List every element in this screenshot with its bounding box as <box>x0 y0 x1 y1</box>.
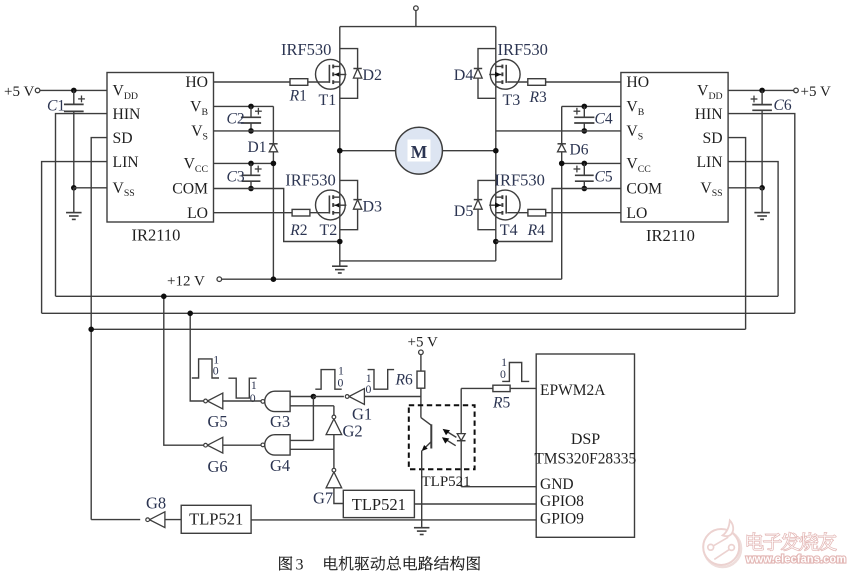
wire GPIO8 to TLP box <box>414 503 536 505</box>
wire G4 out to G6 in <box>223 444 261 446</box>
U2 right pin labels VDD HIN SD LIN VSS <box>695 83 723 200</box>
inverter G6 <box>204 437 228 476</box>
wire U2 LO <box>546 212 621 214</box>
svg-text:VDD: VDD <box>113 83 139 102</box>
diode D4 freewheel <box>474 49 496 99</box>
node T2 source <box>337 239 343 245</box>
node C4 top <box>582 104 588 110</box>
wire G6 out to bus A <box>164 296 204 445</box>
opto phototransistor <box>421 418 431 452</box>
wire LED cathode to GND pin <box>461 486 536 488</box>
nand G3 <box>261 391 290 431</box>
svg-text:G6: G6 <box>208 457 228 476</box>
diode D3 freewheel <box>340 180 362 229</box>
svg-text:VS: VS <box>191 123 208 142</box>
svg-text:+5 V: +5 V <box>801 84 831 100</box>
svg-text:0: 0 <box>500 367 506 381</box>
transistor T4 IRF530 <box>489 190 520 220</box>
svg-text:COM: COM <box>172 181 208 198</box>
right trunk <box>495 27 497 261</box>
supply terminal top <box>414 6 419 27</box>
wire U2 LIN to bus A <box>728 162 778 297</box>
node D6/VCC junction <box>559 161 565 167</box>
opto LED <box>457 388 466 486</box>
transistor T1 IRF530 <box>316 59 347 89</box>
svg-text:G8: G8 <box>146 494 166 513</box>
svg-text:HIN: HIN <box>113 106 141 123</box>
wire U1 SD down <box>91 138 107 520</box>
+5V logic terminal <box>408 335 438 355</box>
svg-text:C5: C5 <box>595 168 613 185</box>
svg-text:VDD: VDD <box>697 83 723 102</box>
wire G7 in from TLP box <box>334 488 343 504</box>
+5V left terminal <box>4 84 40 100</box>
caption 图3 电机驱动总电路结构图 <box>279 556 480 573</box>
svg-text:HO: HO <box>626 74 649 91</box>
U1 right pin labels HO VB VS VCC COM LO <box>172 74 208 222</box>
wire G3 in1 <box>290 396 313 398</box>
label TLP521 dashed <box>422 474 471 490</box>
waveform pulse W1 <box>192 353 219 378</box>
capacitor C3 <box>227 163 262 188</box>
svg-text:LO: LO <box>187 205 208 222</box>
U1 left pin labels VDD HIN SD LIN VSS <box>113 83 141 200</box>
node VSS/C6 junction <box>759 185 765 191</box>
bus C (SD-left / SD-right) <box>91 328 745 330</box>
svg-text:T2: T2 <box>320 222 338 239</box>
wire +5V to U1 VDD <box>40 89 107 91</box>
wire GPIO9 to TLP box <box>251 519 536 521</box>
waveform pulse W2 inverted <box>228 378 257 405</box>
resistor R6 <box>395 355 425 389</box>
wire U2 VSS to C6 <box>728 187 762 189</box>
U1 label IR2110 <box>132 226 181 245</box>
ground opto emitter <box>414 528 430 535</box>
node motor left <box>337 148 343 154</box>
svg-text:G5: G5 <box>208 412 228 431</box>
DSP box <box>536 354 634 537</box>
label IRF530 T1 <box>281 40 331 59</box>
diode D2 freewheel <box>340 49 362 99</box>
svg-text:+5 V: +5 V <box>4 84 34 100</box>
+12V terminal <box>167 273 222 289</box>
svg-text:R5: R5 <box>492 395 510 412</box>
left trunk <box>339 27 341 261</box>
svg-text:www.elecfans.com: www.elecfans.com <box>745 553 846 565</box>
wire U1 LIN down to bus B <box>42 162 107 314</box>
wire G2 in down <box>333 435 335 450</box>
node VDD/C1 junction <box>71 88 77 94</box>
svg-text:GPIO8: GPIO8 <box>540 493 584 510</box>
svg-text:R3: R3 <box>529 89 547 106</box>
inverter G2 <box>326 415 363 440</box>
+12V wire <box>222 163 562 279</box>
svg-text:IRF530: IRF530 <box>281 40 331 59</box>
wire G4 in2 <box>290 448 334 450</box>
waveform pulse W3 inverted <box>366 370 395 397</box>
inverter G1 <box>345 389 372 424</box>
watermark elecfans logo <box>703 520 846 567</box>
svg-text:D2: D2 <box>363 67 383 84</box>
node SD/bus C junction <box>88 327 94 333</box>
capacitor C5 <box>574 163 613 188</box>
node C4 bottom <box>582 128 588 134</box>
wire G2 out up <box>333 406 335 415</box>
wire U1 VCC <box>214 162 274 164</box>
wire G3 out to G5 in <box>223 400 261 402</box>
svg-text:TLP521: TLP521 <box>189 509 243 528</box>
optocoupler box TLP521 (G7) <box>343 490 414 517</box>
label IRF530 T3 <box>498 40 548 59</box>
label D5 <box>454 203 474 220</box>
svg-text:COM: COM <box>626 181 662 198</box>
svg-text:VB: VB <box>626 99 644 118</box>
svg-text:C6: C6 <box>774 97 792 114</box>
inverter G5 <box>204 393 228 431</box>
svg-text:LIN: LIN <box>696 154 722 171</box>
svg-text:T1: T1 <box>319 92 337 109</box>
capacitor C1 <box>47 90 85 187</box>
svg-text:D6: D6 <box>570 142 589 159</box>
waveform pulse W5 <box>315 363 344 389</box>
bus B (LIN-left / HIN-right) <box>42 312 795 314</box>
svg-text:IRF530: IRF530 <box>495 171 545 190</box>
wire U1 LO <box>214 212 293 214</box>
wire G5 out to bus B <box>190 313 203 401</box>
wire G7 out up <box>333 449 335 468</box>
svg-text:T3: T3 <box>503 92 521 109</box>
svg-text:IR2110: IR2110 <box>132 226 181 245</box>
svg-text:0: 0 <box>250 391 256 405</box>
node D1 line/+12V <box>271 276 277 282</box>
bottom rail <box>340 260 496 262</box>
node C2 bottom <box>248 128 254 134</box>
label D3 <box>363 199 383 216</box>
svg-text:R2: R2 <box>289 222 307 239</box>
svg-text:M: M <box>411 142 428 162</box>
wire U2 VS to right trunk <box>496 130 621 132</box>
wire R3 to T3 gate <box>507 81 528 83</box>
ground below C1 <box>66 188 82 220</box>
svg-text:G7: G7 <box>313 489 333 508</box>
svg-text:VSS: VSS <box>700 180 722 199</box>
U2 IR2110 (right) box <box>621 73 728 223</box>
DSP pin GND <box>540 476 574 493</box>
opto light arrows <box>442 429 457 446</box>
label T1 <box>319 92 337 109</box>
svg-text:VS: VS <box>626 123 643 142</box>
resistor R4 <box>527 209 546 238</box>
svg-text:GPIO9: GPIO9 <box>540 510 584 527</box>
svg-text:C2: C2 <box>227 110 245 127</box>
node D1/VCC junction <box>271 161 277 167</box>
wire G3 in2 to G2 <box>290 405 334 407</box>
U2 left pin labels HO VB VS VCC COM LO <box>626 74 662 222</box>
resistor R3 <box>528 79 547 106</box>
svg-text:D4: D4 <box>454 67 474 84</box>
svg-text:R4: R4 <box>527 222 545 239</box>
label T4 <box>500 222 518 239</box>
U2 label IR2110 <box>646 226 695 245</box>
wire G1 in <box>364 396 421 398</box>
svg-text:IRF530: IRF530 <box>285 171 335 190</box>
wire VSS to C1 <box>74 187 107 189</box>
inverter G7 <box>313 468 342 507</box>
DSP label <box>534 431 636 468</box>
label T2 <box>320 222 338 239</box>
wire U2 VDD to +5V <box>728 89 794 91</box>
top rail <box>340 26 496 28</box>
svg-text:C3: C3 <box>227 168 245 185</box>
svg-text:0: 0 <box>366 382 372 396</box>
svg-text:T4: T4 <box>500 222 518 239</box>
label IRF530 T2 <box>285 171 335 190</box>
wire U2 HIN to bus B <box>728 114 795 314</box>
DSP pin EPWM2A <box>540 382 606 399</box>
node C5 top <box>582 161 588 167</box>
svg-text:0: 0 <box>213 364 219 378</box>
motor M <box>340 127 496 174</box>
node C3 bottom <box>248 186 254 192</box>
svg-text:G3: G3 <box>270 412 290 431</box>
wire TLP box to G8 <box>165 519 181 521</box>
node VDD/C6 junction <box>759 88 765 94</box>
wire U2 SD to bus C <box>728 138 746 330</box>
wire G1 junction down to G4 in1 <box>312 397 314 441</box>
svg-text:TLP521: TLP521 <box>422 474 471 490</box>
wire LED to R5 <box>461 387 493 389</box>
node C3 top <box>248 161 254 167</box>
wire R2 to T2 gate <box>310 212 329 214</box>
svg-text:IR2110: IR2110 <box>646 226 695 245</box>
svg-text:VCC: VCC <box>184 156 208 175</box>
wire U1 HIN to bus A <box>56 114 108 297</box>
svg-text:SD: SD <box>113 130 133 147</box>
svg-text:G2: G2 <box>343 422 363 441</box>
bus A (HIN-left / LIN-right) <box>56 295 779 297</box>
node G6/bus A <box>161 294 167 300</box>
svg-text:HO: HO <box>185 74 208 91</box>
svg-text:IRF530: IRF530 <box>498 40 548 59</box>
svg-text:VSS: VSS <box>113 180 135 199</box>
node G1 out junction <box>311 394 317 400</box>
svg-text:R1: R1 <box>289 88 307 105</box>
svg-text:LO: LO <box>626 205 647 222</box>
DSP pin GPIO8 <box>540 493 584 510</box>
ground H-bridge <box>332 261 348 273</box>
svg-text:EPWM2A: EPWM2A <box>540 382 606 399</box>
svg-text:G4: G4 <box>270 456 290 475</box>
label D4 <box>454 67 474 84</box>
svg-text:SD: SD <box>703 130 723 147</box>
wire U2 COM to T4 source <box>496 189 621 242</box>
svg-text:D1: D1 <box>248 139 267 156</box>
wire U2 VCC <box>562 162 621 164</box>
svg-text:TMS320F28335: TMS320F28335 <box>534 451 636 468</box>
wire U2 HO <box>546 81 621 83</box>
svg-text:C4: C4 <box>595 110 613 127</box>
label T3 <box>503 92 521 109</box>
resistor R2 <box>289 209 310 238</box>
resistor R5 <box>492 385 510 411</box>
DSP pin GPIO9 <box>540 510 584 527</box>
svg-text:0: 0 <box>338 376 344 390</box>
ground below C6 <box>754 188 770 220</box>
wire U1 VS to left trunk <box>214 130 340 132</box>
inverter G8 <box>146 494 166 528</box>
svg-text:+5 V: +5 V <box>408 335 438 351</box>
capacitor C4 <box>574 106 613 130</box>
optocoupler TLP521 dashed box <box>409 405 475 469</box>
svg-text:C1: C1 <box>47 97 65 114</box>
opto emitter wire to ground <box>421 450 423 527</box>
diode D1 (bootstrap) <box>248 106 278 279</box>
transistor T3 IRF530 <box>489 59 520 89</box>
node G5/bus B <box>187 311 193 317</box>
node motor right <box>493 148 499 154</box>
node C2 top <box>248 104 254 110</box>
wire U1 HO <box>214 81 291 83</box>
wire G8 out to SD line <box>91 519 140 521</box>
svg-text:LIN: LIN <box>113 154 139 171</box>
svg-text:HIN: HIN <box>695 106 723 123</box>
wire U1 VB <box>214 105 274 107</box>
optocoupler box TLP521 (G8) <box>181 505 251 533</box>
wire U2 VB <box>562 105 621 107</box>
waveform pulse W4 <box>500 355 529 382</box>
wire R1 to T1 gate <box>308 81 329 83</box>
wire R5 to EPWM2A <box>510 387 536 389</box>
svg-text:GND: GND <box>540 476 574 493</box>
svg-text:TLP521: TLP521 <box>352 495 406 514</box>
IC U1 IR2110 (left) box <box>107 73 214 223</box>
svg-text:DSP: DSP <box>571 431 600 448</box>
wire R4 to T4 gate <box>507 212 528 214</box>
wire U1 COM to T2 source <box>214 189 340 242</box>
wire G1 out <box>313 396 344 398</box>
svg-text:D3: D3 <box>363 199 383 216</box>
node C5 bottom <box>582 186 588 192</box>
wire G4 in1 <box>290 439 313 441</box>
capacitor C2 <box>227 106 262 130</box>
resistor R1 <box>289 79 308 105</box>
diode D5 freewheel <box>474 180 496 229</box>
node T4 source <box>493 239 499 245</box>
node VSS/C1 junction <box>71 185 77 191</box>
wire R6 down to opto collector <box>420 388 422 417</box>
svg-text:R6: R6 <box>395 371 413 388</box>
svg-text:+12 V: +12 V <box>167 273 205 289</box>
svg-text:VB: VB <box>190 99 208 118</box>
diode D6 (bootstrap) <box>558 106 589 163</box>
label IRF530 T4 <box>495 171 545 190</box>
capacitor C6 <box>751 90 792 187</box>
svg-text:VCC: VCC <box>626 156 650 175</box>
label D2 <box>363 67 383 84</box>
transistor T2 IRF530 <box>316 190 347 220</box>
svg-text:D5: D5 <box>454 203 474 220</box>
svg-text:3: 3 <box>296 556 304 573</box>
+5V right terminal <box>794 84 831 100</box>
nand G4 <box>261 435 290 475</box>
